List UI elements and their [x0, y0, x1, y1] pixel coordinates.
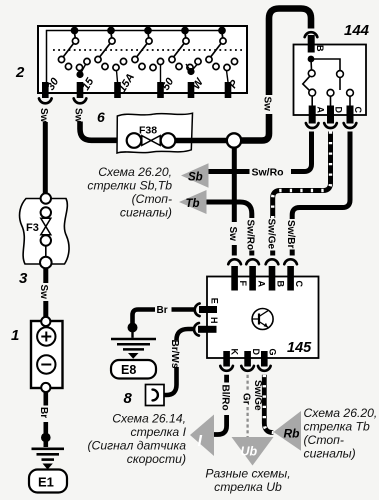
svg-text:стрелка Ub: стрелка Ub: [214, 480, 282, 494]
svg-text:(Сигнал датчика: (Сигнал датчика: [87, 439, 186, 453]
svg-text:G: G: [268, 349, 278, 356]
left switch lever: [303, 76, 310, 90]
connector below A: [306, 123, 319, 128]
svg-text:C: C: [353, 107, 363, 114]
arrow Tb: [179, 190, 207, 214]
battery top junction circle: [41, 317, 50, 326]
wire 144D to 145B (Sw/Ge): [273, 132, 331, 220]
wire H to connector 8: [164, 329, 194, 395]
svg-text:сигналы): сигналы): [120, 206, 172, 220]
svg-text:6: 6: [97, 109, 105, 125]
ground junction dot E8: [128, 323, 138, 333]
F3 bowtie: [41, 218, 51, 235]
svg-text:Sw/Ro: Sw/Ro: [252, 167, 284, 179]
svg-text:Разные схемы,: Разные схемы,: [205, 467, 290, 481]
wire battery to ground: [43, 392, 48, 447]
battery minus pole: [37, 355, 55, 373]
svg-text:Sw: Sw: [227, 227, 238, 242]
terminal box E8: [111, 360, 156, 379]
connector below D145: [241, 366, 254, 371]
svg-text:стрелки Sb,Tb: стрелки Sb,Tb: [87, 179, 172, 193]
svg-text:Rb: Rb: [284, 427, 300, 441]
F3 inner wire: [45, 246, 47, 257]
svg-text:H: H: [209, 317, 219, 324]
svg-text:A: A: [315, 107, 325, 114]
terminal D: [327, 106, 334, 124]
terminal G: [261, 351, 268, 367]
terminal 50: [157, 82, 164, 98]
contact D circle: [327, 89, 334, 96]
connector 8 housing: [146, 385, 165, 406]
svg-text:Sw: Sw: [262, 97, 273, 112]
terminal F: [231, 266, 238, 291]
svg-text:стрелка Tb: стрелка Tb: [304, 420, 370, 434]
svg-text:B: B: [276, 281, 286, 288]
stub F: [232, 245, 237, 256]
stub A: [249, 251, 254, 256]
switch unit 5: [206, 28, 238, 71]
svg-text:Sw/Br: Sw/Br: [285, 220, 296, 248]
terminal W: [188, 82, 195, 98]
battery 1 box: [31, 321, 63, 388]
connector left of H: [194, 323, 199, 336]
wire 144A to Sb: [291, 132, 312, 172]
connector above B: [305, 32, 318, 37]
svg-text:Gr: Gr: [241, 393, 252, 405]
svg-text:8: 8: [124, 390, 133, 407]
link terminal 15: [77, 65, 85, 78]
svg-text:скорости): скорости): [127, 452, 186, 466]
svg-text:Схема 26.20,: Схема 26.20,: [304, 406, 378, 420]
connector above F: [228, 259, 241, 264]
wire 144C to 145C (Sw/Br): [292, 132, 350, 221]
svg-text:E1: E1: [38, 475, 54, 490]
ground symbol E1: [32, 449, 65, 460]
svg-text:2: 2: [15, 64, 25, 81]
svg-text:I: I: [198, 433, 203, 450]
F3 bottom junction circle: [40, 257, 52, 269]
fuse F3 housing: [20, 199, 69, 265]
svg-text:1: 1: [11, 327, 19, 344]
svg-text:Br: Br: [38, 407, 49, 418]
terminal E: [199, 306, 217, 313]
svg-text:(Стоп-: (Стоп-: [304, 433, 344, 447]
terminal box E1: [29, 470, 67, 493]
link terminal P: [227, 71, 229, 83]
F38 left circle: [127, 133, 142, 148]
svg-text:Sb: Sb: [188, 172, 203, 184]
arrow I: [190, 415, 214, 457]
connector below 30: [39, 98, 52, 103]
svg-text:F38: F38: [139, 125, 157, 137]
label Sw/Ro above 145A: [246, 218, 258, 252]
terminal 15: [77, 82, 84, 98]
svg-text:K: K: [230, 349, 240, 356]
connector below D: [324, 123, 337, 128]
svg-text:F: F: [238, 281, 248, 287]
terminal H: [198, 326, 217, 333]
wire F38 to junction: [175, 138, 228, 144]
svg-text:C: C: [294, 281, 304, 288]
F38 right circle: [161, 133, 176, 148]
contact C lead: [349, 96, 351, 106]
coupling dotted line: [53, 49, 242, 51]
terminal C145: [287, 266, 294, 291]
svg-text:E8: E8: [121, 363, 136, 377]
terminal C: [347, 106, 354, 124]
svg-text:D: D: [251, 349, 261, 356]
wire dot down: [310, 59, 313, 70]
terminal B145: [269, 266, 276, 291]
svg-text:Схема 26.14,: Схема 26.14,: [112, 412, 186, 426]
connector above C: [284, 259, 297, 264]
F38 bowtie: [142, 136, 160, 146]
wire Tb to 145 A: [207, 202, 252, 220]
label Sw/Br above 145C: [286, 219, 298, 250]
terminal 15A: [114, 82, 121, 98]
wire junction to 144 B (hairpin): [240, 9, 311, 141]
svg-text:Bl/Ro: Bl/Ro: [219, 385, 230, 411]
relay box 144: [294, 45, 367, 116]
battery plus pole: [37, 327, 55, 345]
connector below K: [220, 366, 233, 371]
connector above A: [246, 259, 259, 264]
junction circle: [227, 133, 241, 147]
contact A lead: [311, 96, 313, 106]
wire junction down: [232, 148, 237, 226]
connector above B: [266, 259, 279, 264]
link terminal W: [186, 64, 197, 74]
svg-text:Sw/Ge: Sw/Ge: [265, 219, 276, 250]
wire dot to right contact: [311, 59, 340, 71]
terminal 30: [42, 82, 49, 98]
connector below G: [258, 366, 271, 371]
svg-text:B: B: [315, 45, 325, 52]
link terminal 15A: [117, 71, 118, 83]
svg-text:Sw: Sw: [38, 285, 49, 300]
svg-text:D: D: [334, 107, 344, 114]
arrow Ub: [232, 437, 274, 466]
svg-text:сигналы): сигналы): [304, 447, 356, 461]
terminal K: [223, 351, 230, 367]
svg-text:Sw/Ro: Sw/Ro: [244, 220, 255, 251]
svg-text:145: 145: [287, 340, 312, 356]
svg-text:Br/Ws: Br/Ws: [169, 340, 180, 369]
arrow Sb: [181, 163, 209, 187]
left upper contact: [308, 70, 315, 77]
label Sw/Ge above 145B: [267, 218, 279, 251]
switch housing box: [38, 26, 247, 93]
link terminal 50: [160, 65, 162, 82]
arrow Rb: [274, 411, 302, 451]
right switch arm: [339, 78, 341, 91]
svg-text:Br: Br: [157, 305, 168, 316]
wire F3 to battery: [43, 268, 48, 317]
svg-text:Ub: Ub: [241, 445, 258, 459]
svg-text:A: A: [256, 281, 266, 288]
switch unit 3: [132, 28, 164, 71]
F3 fuse element bottom circle: [41, 235, 51, 245]
connector left of E: [195, 304, 200, 317]
svg-text:Схема 26.20,: Схема 26.20,: [98, 165, 172, 179]
terminal P: [225, 82, 232, 98]
contact C circle: [347, 89, 354, 96]
node dot below B: [308, 56, 315, 63]
contact A circle: [309, 89, 316, 96]
terminal D145: [244, 351, 251, 367]
stub C: [290, 250, 295, 256]
connector below C: [344, 123, 357, 128]
fuse panel box: [117, 113, 193, 153]
svg-text:стрелка I: стрелка I: [131, 425, 187, 439]
svg-text:Tb: Tb: [186, 198, 200, 210]
svg-text:Sw: Sw: [38, 108, 49, 123]
terminal B: [308, 35, 315, 53]
right upper contact: [337, 71, 344, 78]
switch unit 1: [58, 28, 90, 71]
svg-text:3: 3: [19, 270, 28, 287]
ground junction dot: [41, 433, 51, 443]
svg-text:E: E: [209, 298, 219, 304]
connector below 15: [74, 98, 87, 103]
label Sw above 145F: [228, 222, 240, 245]
switch unit 2: [95, 28, 127, 71]
ground symbol E8: [131, 328, 133, 338]
wire E to ground: [133, 310, 195, 325]
svg-text:144: 144: [344, 22, 370, 39]
connector 8 contact arc: [153, 390, 158, 401]
svg-text:Sw: Sw: [73, 108, 84, 123]
inner bus wire: [47, 31, 223, 85]
svg-text:Sw/Ge: Sw/Ge: [252, 380, 263, 411]
transistor U: [252, 309, 273, 330]
F3 top junction circle: [41, 193, 51, 203]
unit box 145: [207, 277, 319, 359]
stub B: [270, 251, 275, 256]
terminal A: [309, 106, 316, 124]
svg-text:(Стоп-: (Стоп-: [132, 192, 172, 206]
battery bottom junction circle: [41, 383, 50, 392]
contact D lead: [330, 96, 332, 106]
svg-text:F3: F3: [26, 222, 39, 234]
switch unit 4: [169, 28, 201, 71]
F3 fuse element top circle: [41, 207, 51, 217]
terminal A145: [249, 266, 256, 291]
